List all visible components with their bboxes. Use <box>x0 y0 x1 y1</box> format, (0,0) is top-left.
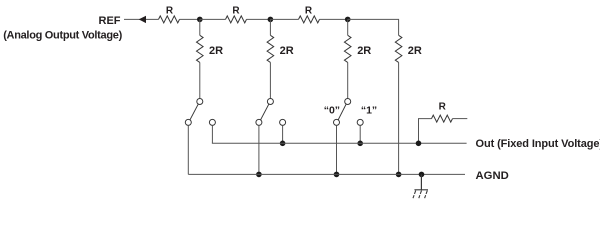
switch S3 pole contact <box>345 99 351 105</box>
svg-text:R: R <box>305 5 313 16</box>
switch S2 right throw contact <box>280 119 286 125</box>
junction dot S2 left on AGND <box>256 172 262 178</box>
junction dot S3 left on AGND <box>334 172 340 178</box>
svg-text:“0”: “0” <box>324 104 340 116</box>
resistor R4 <box>432 115 453 122</box>
wire S3 left contact to AGND bus <box>336 125 338 174</box>
switch S1 pole contact <box>197 99 203 105</box>
svg-text:REF: REF <box>99 15 121 27</box>
svg-text:R: R <box>232 5 240 16</box>
wire S2 left contact to AGND bus <box>258 125 260 174</box>
wire S1 right contact to Out bus corner <box>211 125 213 143</box>
wire node C to terminating branch corner <box>348 19 399 35</box>
ground symbol stub <box>420 174 422 189</box>
wire R1 to node A <box>180 18 200 20</box>
svg-text:R: R <box>166 5 174 16</box>
switch S1 left throw contact <box>185 119 191 125</box>
junction dot terminating branch on AGND <box>396 172 402 178</box>
resistor 2R branch 1 <box>197 35 204 62</box>
wire REF to resistor R1 <box>124 18 159 20</box>
wire S2 right contact to Out bus <box>282 125 284 143</box>
wire node A down to 2R branch 1 <box>199 19 201 35</box>
ground symbol (chassis) <box>413 190 428 198</box>
wire 2R terminating branch to AGND bus <box>398 62 400 174</box>
svg-text:2R: 2R <box>280 45 294 57</box>
node A junction dot <box>197 17 203 23</box>
wire R4 open lead <box>453 118 468 120</box>
arrowhead toward REF <box>139 16 146 23</box>
wire S3 right contact to Out bus <box>359 125 361 143</box>
svg-text:AGND: AGND <box>476 170 509 182</box>
switch S3 left throw contact <box>334 119 340 125</box>
wire node A to resistor R2 <box>200 18 226 20</box>
resistor R4 stub to Out bus <box>419 119 432 144</box>
resistor 2R branch 2 <box>267 35 274 62</box>
svg-text:2R: 2R <box>408 45 422 57</box>
junction dot S3 right on Out <box>357 141 363 147</box>
node C junction dot <box>345 17 351 23</box>
svg-text:Out (Fixed Input Voltage): Out (Fixed Input Voltage) <box>476 138 600 150</box>
resistor 2R branch 3 <box>344 35 351 62</box>
wire 2R branch 2 to switch S2 pole <box>269 62 271 98</box>
wire R2 to node B <box>247 18 271 20</box>
wire S1 left contact to AGND bus corner <box>187 125 189 174</box>
resistor R3 <box>299 16 320 23</box>
svg-text:“1”: “1” <box>361 104 377 116</box>
node B junction dot <box>268 17 274 23</box>
resistor R1 <box>159 16 180 23</box>
wire 2R branch 1 to switch S1 pole <box>199 62 201 98</box>
svg-text:2R: 2R <box>357 45 371 57</box>
svg-text:(Analog Output Voltage): (Analog Output Voltage) <box>3 29 122 41</box>
resistor R2 <box>226 16 247 23</box>
junction dot ground tap on AGND <box>419 172 425 178</box>
wire 2R branch 3 to switch S3 pole <box>347 62 349 98</box>
junction dot R4 stub on Out <box>416 141 422 147</box>
net AGND bus wire <box>188 173 465 175</box>
switch S3 arm <box>338 104 346 120</box>
switch S1 right throw contact <box>209 119 215 125</box>
switch S3 right throw contact <box>357 119 363 125</box>
svg-text:R: R <box>439 101 447 112</box>
switch S2 arm <box>261 104 269 120</box>
wire R3 to node C <box>320 18 348 20</box>
switch S2 pole contact <box>267 99 273 105</box>
net Out bus wire <box>212 142 467 144</box>
resistor 2R terminating branch 4 <box>395 35 402 62</box>
wire node C down to 2R branch 3 <box>347 19 349 35</box>
svg-text:2R: 2R <box>209 45 223 57</box>
wire node B to resistor R3 <box>270 18 298 20</box>
switch S1 arm <box>190 104 198 120</box>
switch S2 left throw contact <box>256 119 262 125</box>
junction dot S2 right on Out <box>280 141 286 147</box>
wire node B down to 2R branch 2 <box>269 19 271 35</box>
